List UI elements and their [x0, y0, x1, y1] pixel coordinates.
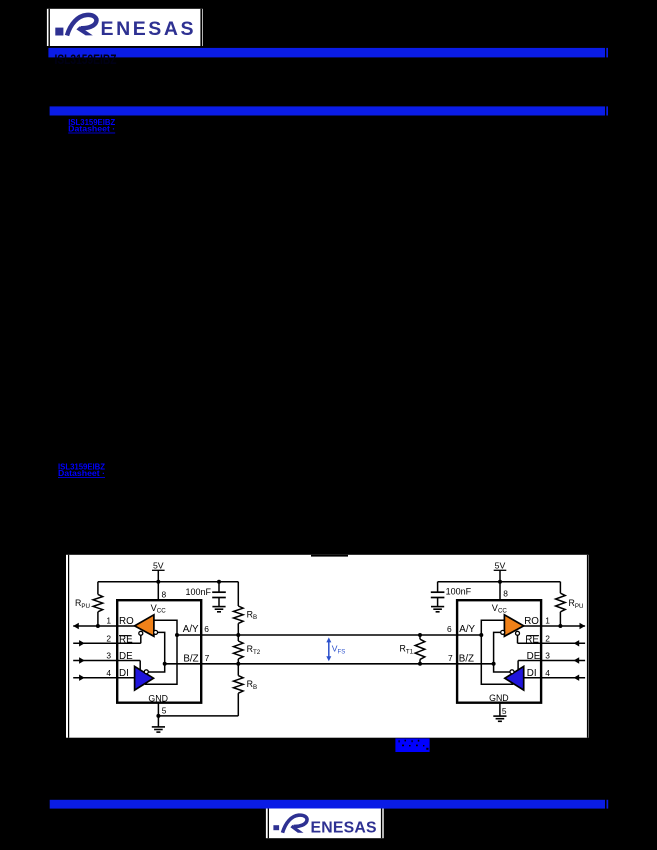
- bubble: receiver inverting input right: [501, 630, 505, 634]
- svg-text:DI: DI: [527, 668, 537, 679]
- resistor RT1: [419, 635, 421, 639]
- wire: pin 5 stub left: [157, 703, 159, 727]
- svg-text:8: 8: [503, 589, 508, 599]
- ground (left cap): [212, 606, 225, 608]
- arrow DE input right: [574, 657, 580, 663]
- ground (right IC): [493, 715, 506, 717]
- svg-text:3: 3: [106, 651, 111, 661]
- driver amp left (blue): [135, 666, 154, 690]
- svg-text:4: 4: [545, 668, 550, 678]
- wire: RB lower to ground wire: [158, 715, 238, 717]
- svg-text:6: 6: [447, 624, 452, 634]
- svg-text:8: 8: [162, 590, 167, 600]
- arrow DE input left: [79, 657, 85, 663]
- figure title text bottoms overlapping figure top: [311, 555, 348, 557]
- receiver amp right (orange): [504, 615, 523, 637]
- wire: receiver B input to B/Z left: [148, 632, 164, 672]
- arrow RE input right: [574, 640, 580, 646]
- svg-text:GND: GND: [148, 693, 168, 703]
- arrow DI input left: [79, 675, 85, 681]
- capacitor C2 100nF right: [437, 582, 439, 592]
- svg-text:Datasheet ·: Datasheet ·: [68, 125, 115, 134]
- wire: left 5V supply drop: [152, 569, 165, 571]
- node: B/Z internal junction left: [163, 662, 167, 666]
- svg-text:2: 2: [545, 634, 550, 644]
- resistor RT2: [234, 641, 244, 659]
- IC box U1 (left transceiver): [117, 600, 201, 703]
- node: A/Y internal junction left: [175, 633, 179, 637]
- wire: RE line (pin 2) right: [518, 642, 586, 644]
- wire: driver Y output to A/Y left: [145, 635, 177, 684]
- wire: pin 8 stub left: [157, 582, 159, 601]
- node: RPU to RO junction right: [558, 624, 562, 628]
- svg-text:7: 7: [205, 653, 210, 663]
- node: A/Y internal junction right: [479, 633, 483, 637]
- svg-text:5: 5: [502, 706, 507, 716]
- svg-text:ENESAS: ENESAS: [311, 819, 377, 836]
- resistor RPU right: [559, 582, 561, 594]
- wire: left VCC rail: [98, 581, 238, 583]
- wire: RO line (pin 1) left: [73, 625, 134, 627]
- bubble: receiver enable left: [139, 631, 143, 635]
- svg-text:5V: 5V: [495, 561, 506, 571]
- svg-text:B/Z: B/Z: [183, 653, 198, 664]
- header blue bar: [48, 48, 605, 58]
- section blue bar: [50, 106, 605, 115]
- svg-text:A/Y: A/Y: [183, 624, 199, 635]
- node: RPU to RO junction: [96, 624, 100, 628]
- Renesas footer logo box: [266, 809, 384, 839]
- Renesas header logo box: [47, 9, 203, 46]
- figure white background: [66, 555, 589, 738]
- node: B/Z internal junction right: [492, 662, 496, 666]
- svg-text:ISL3159EIBZ: ISL3159EIBZ: [55, 52, 117, 67]
- svg-text:A/Y: A/Y: [459, 624, 475, 635]
- wire: driver Y output to A/Y right: [481, 635, 513, 684]
- svg-text:DI: DI: [119, 668, 129, 679]
- svg-text:7: 7: [448, 653, 453, 663]
- wire: pin 5 stub right: [499, 703, 501, 716]
- wire: receiver input from A/Y right: [481, 620, 504, 635]
- figure caption link: [395, 738, 429, 752]
- arrow RO output left: [73, 623, 79, 629]
- ground (left IC): [152, 726, 165, 728]
- svg-text:2: 2: [106, 634, 111, 644]
- resistor RB upper (left): [237, 582, 239, 606]
- svg-text:B/Z: B/Z: [459, 653, 474, 664]
- wire: right 5V supply drop: [494, 569, 507, 571]
- VFS differential arrow: [328, 640, 330, 660]
- node: RB/A-Y junction: [236, 633, 240, 637]
- svg-text:4: 4: [106, 668, 111, 678]
- node: left rail cap junction: [217, 580, 221, 584]
- svg-text:5V: 5V: [153, 561, 164, 571]
- svg-text:RO: RO: [524, 616, 539, 627]
- arrow RO output right: [580, 623, 586, 629]
- svg-text:Datasheet ·: Datasheet ·: [58, 469, 105, 478]
- svg-text:1: 1: [545, 616, 550, 626]
- footer blue bar: [50, 800, 605, 809]
- node: RT1 bottom: [418, 662, 422, 666]
- wire: pin 8 stub right: [499, 582, 501, 601]
- wire: DE line (pin 3) left: [73, 660, 140, 662]
- receiver amp left (orange): [135, 615, 154, 637]
- wire: DI line (pin 4) right: [524, 677, 585, 679]
- node: RT2/B-Z junction: [236, 662, 240, 666]
- svg-text:6: 6: [204, 624, 209, 634]
- svg-text:RO: RO: [119, 616, 134, 627]
- wire: DI line (pin 4) left: [73, 677, 134, 679]
- svg-text:DE: DE: [119, 651, 133, 662]
- bubble: receiver inverting input left: [154, 630, 158, 634]
- resistor RPU left: [97, 582, 99, 595]
- node: right 5V rail junction: [498, 580, 502, 584]
- wire: RO line (pin 1) right: [524, 625, 585, 627]
- wire: right VCC rail: [438, 581, 561, 583]
- wire: DE line (pin 3) right: [518, 660, 585, 662]
- svg-text:GND: GND: [489, 693, 509, 703]
- svg-text:100nF: 100nF: [446, 586, 472, 596]
- bubble: driver inverting output right: [510, 670, 514, 674]
- node: left 5V rail junction: [156, 580, 160, 584]
- svg-text:1: 1: [106, 616, 111, 626]
- svg-text:5: 5: [162, 706, 167, 716]
- capacitor C1 100nF left: [218, 582, 220, 592]
- figure border left: [68, 555, 69, 738]
- node: pin5/ground junction left: [156, 714, 160, 718]
- wire: receiver input from A/Y left: [154, 620, 177, 635]
- wire: B/Z bus line: [165, 663, 494, 665]
- svg-text:100nF: 100nF: [185, 587, 211, 597]
- arrow RE input left: [79, 640, 85, 646]
- ground (right cap): [431, 606, 444, 608]
- driver amp right (blue): [505, 666, 524, 690]
- IC box U2 (right transceiver): [457, 600, 541, 703]
- wire: receiver B input to B/Z right: [494, 632, 510, 672]
- figure border right: [587, 555, 588, 738]
- wire: RE line (pin 2) left: [73, 642, 141, 644]
- svg-text:3: 3: [545, 651, 550, 661]
- arrow DI input right: [574, 675, 580, 681]
- bubble: receiver enable right: [516, 631, 520, 635]
- node: RT1 top: [418, 633, 422, 637]
- wire: A/Y bus line: [177, 634, 481, 636]
- resistor RB lower (left): [237, 664, 239, 676]
- svg-text:DE: DE: [527, 651, 541, 662]
- bubble: driver inverting output left: [144, 670, 148, 674]
